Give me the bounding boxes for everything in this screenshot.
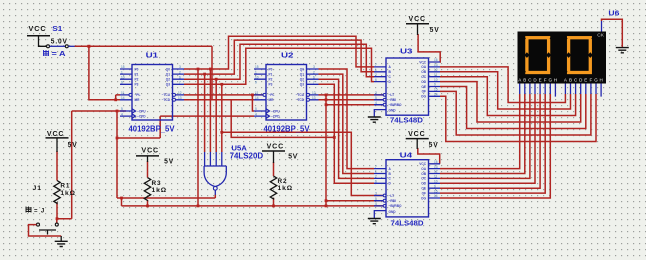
svg-text:B: B (523, 77, 526, 82)
vcc symbol R1 (46, 138, 69, 152)
svg-text:P3: P3 (135, 83, 139, 87)
svg-text:1kΩ: 1kΩ (60, 190, 76, 197)
node junction x=221.8 y=133.6 (220, 131, 223, 134)
resistor R2 (270, 176, 276, 199)
svg-text:P1: P1 (135, 72, 139, 76)
svg-text:MR: MR (269, 98, 275, 102)
pin numbers U3 (375, 58, 438, 105)
svg-text:5: 5 (255, 107, 257, 111)
svg-text:OC: OC (421, 75, 426, 79)
wire: R2 bottom lead (273, 198, 275, 206)
wire: U1 Q3 branch to U4 ~LT (222, 132, 383, 195)
svg-text:VCC: VCC (47, 131, 65, 138)
svg-text:Q2: Q2 (300, 78, 304, 82)
svg-text:4: 4 (255, 112, 257, 116)
svg-text:40192BP_5V: 40192BP_5V (264, 125, 311, 134)
svg-text:7: 7 (375, 165, 377, 169)
svg-text:R2: R2 (278, 178, 288, 185)
node junction x=326 y=94.9 (325, 94, 328, 97)
svg-text:15: 15 (434, 189, 438, 193)
wire: U5A output down to bottom bus (214, 195, 216, 199)
svg-text:GND: GND (389, 108, 397, 112)
svg-text:14: 14 (434, 194, 438, 198)
U2 clock triangles (266, 109, 269, 118)
svg-text:5V: 5V (429, 142, 439, 149)
U2 ~PL bubble (263, 93, 266, 96)
wire: U2 ~TCD to U3 ~RBI (319, 99, 384, 101)
svg-text:12: 12 (178, 91, 182, 95)
U1 pin names (135, 67, 171, 118)
svg-text:2: 2 (375, 175, 377, 179)
svg-text:R1: R1 (60, 183, 70, 190)
svg-text:13: 13 (178, 96, 182, 100)
svg-text:15: 15 (434, 88, 438, 92)
U4 GND wire and ground (374, 211, 386, 218)
svg-text:P1: P1 (269, 72, 273, 76)
svg-text:GND: GND (389, 210, 397, 214)
vcc symbol U3 (406, 24, 429, 35)
svg-text:5V: 5V (288, 154, 298, 161)
pin numbers U4 (375, 160, 438, 206)
wire: U3 OC to display right digit pin C (440, 77, 576, 116)
svg-text:2: 2 (313, 70, 315, 74)
svg-text:OA: OA (421, 167, 426, 171)
wire: U3 OB to display right digit pin B (440, 72, 571, 109)
U4 pin stubs right (429, 164, 441, 198)
svg-text:11: 11 (434, 175, 438, 179)
svg-text:R3: R3 (152, 180, 162, 187)
wire: U1 ~PL tie-down to MR line (116, 95, 120, 100)
decoder U4 74LS48D body (386, 160, 429, 217)
svg-text:2: 2 (375, 73, 377, 77)
svg-text:OF: OF (422, 90, 426, 94)
svg-text:G: G (594, 77, 598, 82)
svg-text:3: 3 (179, 65, 181, 69)
wire: horizontal under U1 y=138 (117, 137, 160, 139)
wire: bottom bus y=205.9 (122, 205, 384, 207)
display U6 black body (518, 32, 607, 84)
svg-text:40192BP_5V: 40192BP_5V (129, 125, 176, 134)
wire: U4 VCC feed (418, 148, 440, 164)
svg-text:U4: U4 (400, 151, 414, 160)
svg-text:12: 12 (312, 91, 316, 95)
display pin letters (518, 77, 603, 82)
ground under J1 (55, 241, 68, 246)
svg-text:OG: OG (421, 196, 426, 200)
wire: U3 ~BI/RBO line (326, 104, 383, 106)
svg-text:3: 3 (313, 65, 315, 69)
svg-text:OF: OF (422, 191, 426, 195)
svg-text:F: F (544, 77, 547, 82)
svg-text:G: G (549, 77, 553, 82)
U3 input bubbles (383, 94, 386, 97)
U3 GND wire and ground (374, 110, 386, 117)
svg-text:14: 14 (434, 93, 438, 97)
wire: U2 Q3 to U4 D (319, 84, 375, 183)
svg-text:15: 15 (121, 65, 125, 69)
svg-text:5: 5 (375, 96, 377, 100)
display digit 0 left (527, 38, 549, 73)
svg-text:3: 3 (375, 91, 377, 95)
U3 pin stubs right (429, 62, 441, 96)
svg-text:OC: OC (421, 177, 426, 181)
svg-text:Q3: Q3 (300, 83, 304, 87)
svg-text:OB: OB (421, 70, 426, 74)
svg-text:11: 11 (121, 91, 125, 95)
svg-text:5V: 5V (164, 159, 174, 166)
svg-text:F: F (590, 77, 593, 82)
svg-text:~TCD: ~TCD (162, 98, 171, 102)
wire: U4 OF to display left digit pin F (440, 94, 545, 193)
svg-text:1: 1 (375, 68, 377, 72)
svg-text:74LS48D: 74LS48D (390, 116, 423, 125)
wire: link down to bottom bus (121, 198, 123, 206)
wire: U3 VCC feed (418, 34, 440, 62)
wire: R2 top from VCC (273, 162, 275, 176)
wire: U1 ~TCD down-route to lower net (184, 100, 334, 138)
svg-text:= J: = J (34, 208, 45, 215)
svg-text:VCC: VCC (419, 162, 426, 166)
svg-text:4: 4 (121, 112, 123, 116)
svg-text:~TCU: ~TCU (162, 93, 171, 97)
svg-text:15: 15 (255, 65, 259, 69)
node junction x=326 y=138.6 (333, 136, 336, 139)
U1 ~TCU ~TCD bubbles (173, 93, 176, 96)
svg-text:16: 16 (434, 160, 438, 164)
wire: R3 top from VCC (147, 161, 149, 178)
svg-text:14: 14 (121, 96, 125, 100)
svg-text:9: 9 (255, 81, 257, 85)
svg-text:Q1: Q1 (300, 72, 304, 76)
wire: U2 ~CPD line (160, 116, 254, 138)
wire: U1 ~TCU to U2 ~PL (184, 94, 263, 96)
svg-text:16: 16 (434, 58, 438, 62)
svg-text:10: 10 (434, 180, 438, 184)
node junction MR line x=115.7 (114, 98, 117, 101)
svg-text:U1: U1 (146, 51, 159, 60)
wire: U4 OD to display left digit pin D (440, 94, 535, 183)
svg-text:Q3: Q3 (166, 83, 170, 87)
svg-text:S1: S1 (52, 26, 62, 33)
svg-text:~PL: ~PL (269, 93, 275, 97)
U3 pin stubs left (374, 67, 386, 105)
svg-text:74LS20D: 74LS20D (230, 152, 264, 161)
svg-text:9: 9 (121, 81, 123, 85)
svg-text:B: B (569, 77, 572, 82)
svg-text:P0: P0 (135, 67, 139, 71)
wire: bus U1 Q0 to U3 A (184, 36, 374, 69)
svg-text:12: 12 (434, 170, 438, 174)
svg-text:OD: OD (421, 80, 426, 84)
svg-text:10: 10 (255, 75, 259, 79)
nand gate U5A 74LS20D (204, 152, 226, 195)
U1 ~PL bubble (129, 93, 132, 96)
wire: vertical x=117 from CPU line to bottom bus (116, 111, 118, 198)
wire: U4 ~RBI line (326, 200, 383, 202)
svg-text:3: 3 (375, 192, 377, 196)
resistor R1 (54, 181, 60, 204)
svg-text:OE: OE (421, 85, 426, 89)
node junction x=326 y=99.8 (325, 98, 328, 101)
U2 pin stubs left (254, 69, 266, 116)
U4 input bubbles (383, 194, 386, 197)
node junction x=117 y=138 (116, 137, 119, 140)
wire: riser x=326 bottom bus up to U3 ~LT line (325, 95, 327, 206)
wire: U5A input 4 from U1 Q3 row (221, 84, 223, 152)
wire: U4 OC to display left digit pin C (440, 94, 530, 178)
node junction x=326 y=199.7 (325, 199, 328, 202)
svg-text:9: 9 (434, 184, 436, 188)
svg-text:OD: OD (421, 182, 426, 186)
svg-text:9: 9 (434, 83, 436, 87)
node junction TCU line x=252.4 (251, 94, 254, 97)
svg-text:~LT: ~LT (389, 194, 395, 198)
svg-text:VCC: VCC (29, 26, 47, 33)
svg-text:4: 4 (375, 202, 377, 206)
U2 ~TCU ~TCD bubbles (307, 93, 310, 96)
svg-text:4: 4 (375, 101, 377, 105)
svg-text:5V: 5V (68, 142, 78, 149)
svg-text:H: H (554, 77, 557, 82)
wire: U5A input 3 from U1 Q2 row (215, 79, 217, 152)
vcc symbol R3 (136, 156, 159, 162)
svg-text:~RBI: ~RBI (389, 199, 396, 203)
svg-text:= A: = A (52, 51, 66, 58)
wire: U4 OE to display left digit pin E (440, 94, 540, 188)
svg-text:H: H (599, 77, 602, 82)
wire: U2 Q0 to U4 A (319, 69, 375, 169)
svg-text:U2: U2 (281, 51, 294, 60)
svg-text:A: A (518, 77, 521, 82)
U2 pin names (269, 67, 305, 118)
svg-text:6: 6 (313, 75, 315, 79)
svg-text:E: E (584, 77, 587, 82)
wire: branch down to U2 ~CPU (252, 95, 254, 111)
svg-text:Q1: Q1 (166, 72, 170, 76)
wire: bus U1 Q2 to U3 C (184, 44, 374, 79)
wire: bus U1 Q3 to U3 D (184, 48, 374, 84)
svg-text:OA: OA (421, 65, 426, 69)
U3 pin names (389, 60, 427, 112)
ground under U6 (616, 48, 629, 53)
label key=A (hand-drawn CJK glyph) (43, 50, 49, 56)
svg-text:A: A (564, 77, 567, 82)
svg-text:74LS48D: 74LS48D (391, 219, 424, 228)
svg-text:12: 12 (434, 68, 438, 72)
svg-text:~CPD: ~CPD (137, 114, 146, 118)
svg-text:5.0V: 5.0V (51, 39, 68, 46)
svg-text:1kΩ: 1kΩ (152, 187, 168, 194)
svg-text:13: 13 (312, 96, 316, 100)
node junction x=326 y=104.7 (325, 103, 328, 106)
op IC U2 40192BP_5V body (266, 65, 307, 121)
svg-text:~BI/RBO: ~BI/RBO (389, 204, 403, 208)
svg-text:5: 5 (375, 197, 377, 201)
wire: gate output rail y=198 (117, 197, 215, 199)
wire: U3 OG to display right digit pin G (440, 94, 596, 142)
svg-text:OB: OB (421, 172, 426, 176)
wire: U5A input 1 from U1 Q1 row (204, 74, 206, 152)
decoder U3 74LS48D body (386, 58, 429, 115)
svg-text:Q0: Q0 (300, 67, 304, 71)
switch S1 (47, 45, 75, 48)
svg-text:14: 14 (255, 96, 259, 100)
svg-text:~CPD: ~CPD (271, 114, 280, 118)
svg-text:P2: P2 (135, 78, 139, 82)
wire: U2 ~TCU to U3 ~LT (319, 94, 384, 96)
svg-text:6: 6 (179, 75, 181, 79)
svg-text:P0: P0 (269, 67, 273, 71)
U1 pin stubs right (173, 69, 185, 100)
svg-text:P2: P2 (269, 78, 273, 82)
svg-text:~RBI: ~RBI (389, 98, 396, 102)
wire: S1 output to right, net A (75, 45, 213, 47)
svg-text:~BI/RBO: ~BI/RBO (389, 103, 403, 107)
U1 clock triangles (132, 109, 135, 118)
svg-text:CK: CK (597, 32, 604, 38)
svg-text:P3: P3 (269, 83, 273, 87)
svg-text:7: 7 (179, 81, 181, 85)
svg-text:~PL: ~PL (135, 93, 141, 97)
wire: net A drop to U1 MR (89, 46, 120, 100)
node junction CPU line x=117 (116, 110, 119, 113)
op IC U1 40192BP_5V body (132, 65, 173, 121)
svg-text:U6: U6 (608, 11, 619, 18)
U4 pin stubs left (374, 169, 386, 206)
svg-text:~CPU: ~CPU (271, 109, 280, 113)
wire: U3 OF to display right digit pin F (440, 91, 591, 135)
vcc symbol U4 (406, 139, 429, 149)
wire: U4 OA to display left digit pin A (440, 94, 520, 169)
wire: R1 top from VCC (56, 151, 58, 181)
svg-text:OG: OG (421, 95, 426, 99)
node junction riser x=329 (325, 205, 328, 208)
wire: U2 Q2 to U4 C (319, 79, 375, 178)
svg-text:11: 11 (255, 91, 259, 95)
svg-text:~TCD: ~TCD (296, 98, 305, 102)
node junction R2 bottom (272, 205, 275, 208)
svg-text:~CPU: ~CPU (137, 109, 146, 113)
wire: U1 ~CPU clock line (72, 110, 126, 112)
svg-text:10: 10 (434, 78, 438, 82)
wire: net from U1 Q0 row down to bottom bus (197, 69, 199, 206)
svg-text:7: 7 (313, 81, 315, 85)
switch J1 pushbutton (29, 223, 62, 241)
svg-text:6: 6 (375, 180, 377, 184)
wire: U5A input 2 from U1 Q0 row (209, 69, 211, 152)
wire: U6 CK to ground (602, 19, 623, 47)
svg-text:1: 1 (121, 70, 123, 74)
svg-text:OE: OE (421, 187, 426, 191)
svg-text:~LT: ~LT (389, 93, 395, 97)
svg-text:Q2: Q2 (166, 78, 170, 82)
svg-text:5V: 5V (430, 27, 440, 34)
svg-text:VCC: VCC (419, 60, 426, 64)
svg-text:U3: U3 (400, 47, 413, 56)
svg-text:5: 5 (121, 107, 123, 111)
pin numbers U1 (121, 65, 182, 116)
svg-text:VCC: VCC (142, 148, 160, 155)
wire: U4 OG to display left digit pin G (440, 94, 550, 198)
node junction at S1 line x=88.9 (87, 45, 90, 48)
node junction R1 bottom y=218.7 (56, 217, 59, 220)
label key=J (hand-drawn CJK glyph) (26, 207, 32, 213)
svg-text:10: 10 (121, 75, 125, 79)
svg-text:MR: MR (135, 98, 141, 102)
display CK pin stub (601, 21, 603, 32)
wire: U3 OE to display right digit pin E (440, 87, 586, 129)
svg-text:13: 13 (434, 165, 438, 169)
wire: U2 Q1 to U4 B (319, 74, 375, 173)
wire: R3 bottom lead (147, 200, 149, 206)
wire: net A drop to U2 MR (212, 46, 254, 100)
svg-text:VCC: VCC (267, 144, 285, 151)
svg-text:11: 11 (434, 73, 438, 77)
display digit 0 right (569, 38, 591, 73)
pin numbers U2 (255, 65, 316, 116)
wire: U3 OA to display right digit pin A (440, 67, 565, 103)
svg-text:1kΩ: 1kΩ (278, 185, 294, 192)
display pin stubs (520, 84, 601, 97)
U4 pin names (389, 162, 427, 214)
node junction R3 bottom (146, 205, 149, 208)
svg-text:1: 1 (375, 170, 377, 174)
U1 pin stubs left (120, 69, 132, 116)
svg-text:VCC: VCC (409, 16, 427, 23)
svg-text:J1: J1 (33, 185, 43, 192)
svg-text:E: E (539, 77, 542, 82)
svg-text:1: 1 (255, 70, 257, 74)
wire: J1/R1 node up to CPU line (57, 111, 72, 223)
svg-text:2: 2 (179, 70, 181, 74)
svg-text:7: 7 (375, 63, 377, 67)
wire: U4 OB to display left digit pin B (440, 94, 525, 174)
digit segment notches (521, 35, 596, 75)
svg-text:~TCU: ~TCU (296, 93, 305, 97)
vcc symbol S1 (27, 36, 50, 47)
U2 pin stubs right (307, 69, 319, 100)
svg-text:VCC: VCC (408, 131, 426, 138)
vcc symbol R2 (262, 151, 285, 163)
wire: bus U1 Q1 to U3 B (184, 40, 374, 74)
svg-text:Q0: Q0 (166, 67, 170, 71)
svg-text:13: 13 (434, 63, 438, 67)
resistor R3 (144, 178, 150, 201)
svg-text:6: 6 (375, 78, 377, 82)
wire: U3 OD to display right digit pin D (440, 82, 581, 122)
